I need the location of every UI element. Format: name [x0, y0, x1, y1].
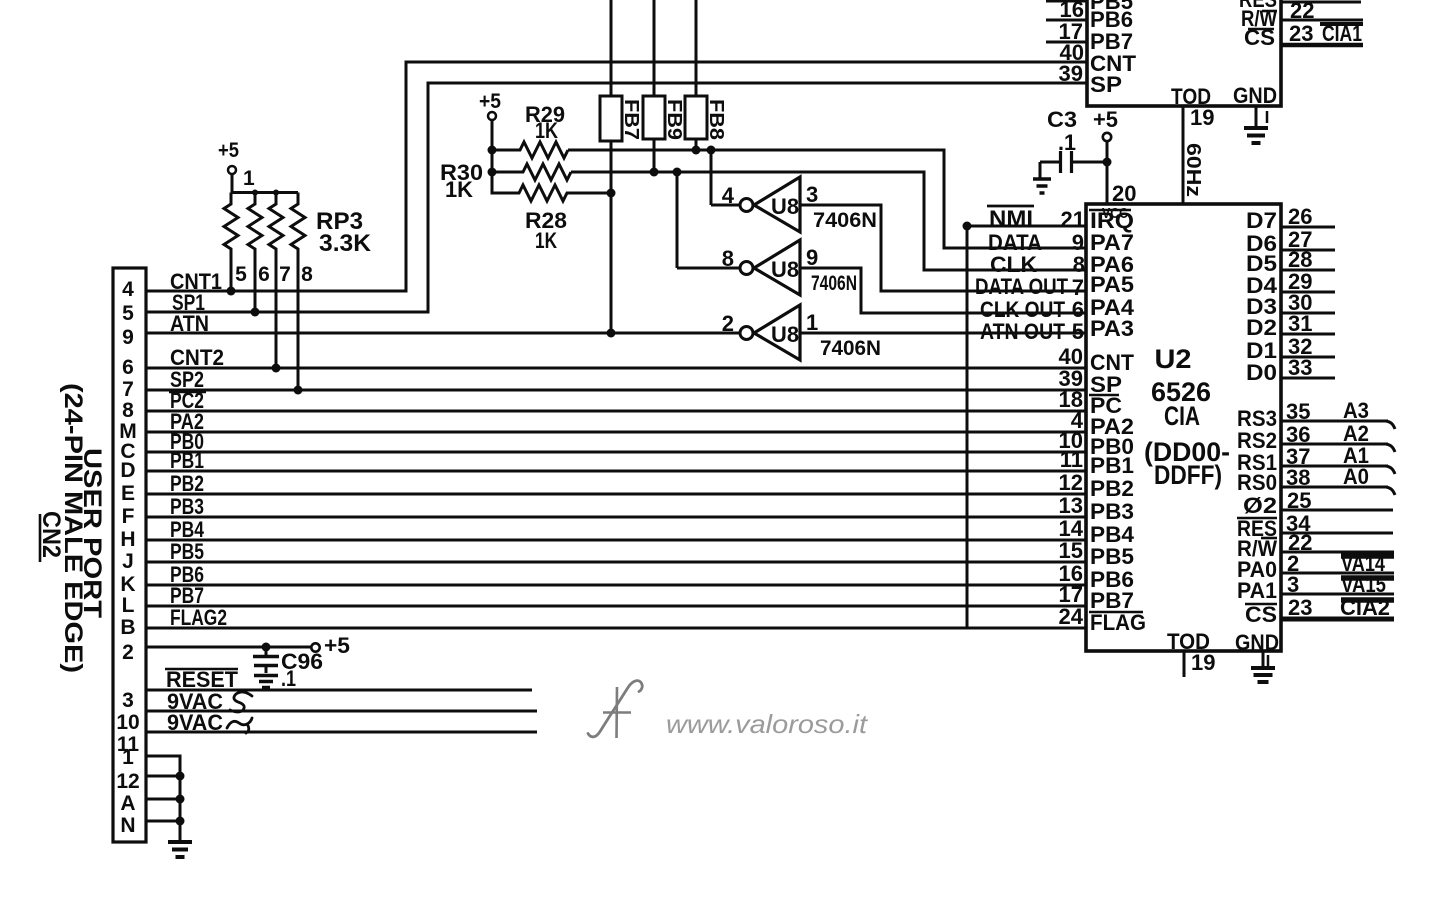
resistor network RP3 3.3K	[218, 139, 372, 390]
IC U2 6526 CIA (DD00-DDFF)	[1086, 204, 1281, 655]
junction FB9/CLK	[650, 168, 659, 177]
wire U2 D1 pin 32	[1281, 334, 1335, 359]
wire U1 pin RES	[1281, 1, 1361, 4]
junction R28/FB7	[607, 189, 616, 198]
svg-text:35: 35	[1286, 399, 1310, 424]
svg-text:U8: U8	[771, 257, 799, 282]
svg-text:5: 5	[235, 263, 247, 286]
svg-text:9VAC: 9VAC	[167, 710, 223, 735]
wire PB3 (CN2 to U2 pin 13)	[146, 493, 1087, 519]
wire PB1 (CN2 to U2 pin 11)	[146, 447, 1087, 473]
capacitor C96 .1	[253, 647, 323, 691]
junction RP3 pin 7 / CNT2	[272, 364, 281, 373]
inverter U8 7406N (pins 4 in / 3 out) serial DATA driver	[711, 150, 877, 232]
svg-text:FB7: FB7	[620, 99, 642, 140]
svg-text:+5: +5	[218, 139, 239, 162]
svg-text:8: 8	[122, 399, 134, 422]
svg-text:PB3: PB3	[1090, 499, 1134, 524]
resistor R30 1K	[440, 150, 571, 202]
junction FB7/ATN	[607, 329, 616, 338]
svg-text:13: 13	[1059, 493, 1083, 518]
svg-text:FB9: FB9	[663, 99, 685, 140]
svg-text:PB2: PB2	[1090, 476, 1134, 501]
wire NMI (U2 IRQ pin 21, tied to FLAG row)	[967, 206, 1087, 628]
junction FB8/DATA	[692, 146, 701, 155]
svg-text:PB1: PB1	[1090, 453, 1134, 478]
svg-text:23: 23	[1289, 21, 1313, 46]
svg-text:A3: A3	[1343, 398, 1369, 423]
svg-text:2: 2	[122, 641, 134, 664]
wire U2 RS1 pin 37 net A1	[1281, 443, 1395, 474]
svg-text:38: 38	[1286, 465, 1310, 490]
svg-text:9: 9	[806, 245, 818, 270]
wire PC2 (CN2 to U2 pin 18)	[146, 387, 1087, 413]
svg-text:L: L	[122, 594, 135, 617]
wire CNT2 (CN2 to U2 pin 40)	[146, 344, 1087, 370]
svg-text:PB1: PB1	[170, 448, 204, 473]
svg-text:3: 3	[1287, 572, 1299, 597]
svg-text:17: 17	[1059, 19, 1083, 44]
+5 terminal (CN2 pin 2)	[311, 633, 350, 658]
svg-text:PA5: PA5	[1090, 272, 1134, 297]
ground (U2 GND pin 1)	[1251, 651, 1275, 682]
svg-text:4: 4	[722, 183, 735, 208]
svg-text:1: 1	[122, 746, 134, 769]
junction NMI tee	[963, 222, 972, 231]
svg-text:NMI: NMI	[989, 206, 1033, 231]
svg-text:7: 7	[122, 378, 134, 401]
+5 terminal (pull-ups R29/R30)	[479, 90, 501, 150]
svg-text:5: 5	[1072, 319, 1084, 344]
wire PB4 (CN2 to U2 pin 14)	[146, 516, 1087, 542]
connector CN2 title USER PORT (24-PIN MALE EDGE) CN2	[37, 383, 106, 673]
svg-text:21: 21	[1061, 207, 1085, 232]
svg-text:K: K	[120, 573, 135, 596]
junction R29 wire / U8 pin 4 branch	[707, 146, 716, 155]
svg-text:U2: U2	[1155, 344, 1192, 374]
inverter U8 7406N (pins 8 in / 9 out) serial CLK driver	[677, 172, 857, 295]
wire U2 D5 pin 28	[1281, 247, 1335, 272]
svg-text:7: 7	[279, 263, 291, 286]
wire U2 D0 pin 33	[1281, 355, 1335, 380]
svg-text:31: 31	[1288, 311, 1312, 336]
svg-text:23: 23	[1288, 595, 1312, 620]
junction (C96 tap on pin 2 wire)	[262, 643, 271, 652]
resistor R28 1K	[492, 172, 611, 253]
wire ground bus (CN2 pins 1,12,A,N)	[146, 756, 185, 841]
wire U2 RS2 pin 36 net A2	[1281, 421, 1395, 452]
svg-text:+5: +5	[1093, 107, 1118, 132]
svg-text:19: 19	[1191, 650, 1215, 675]
svg-text:1: 1	[243, 167, 255, 190]
svg-text:8: 8	[722, 246, 734, 271]
wire +5 to CN2 pin 2	[146, 646, 311, 649]
wire serial ATN via ferrite bead FB7	[610, 0, 613, 333]
watermark valoroso.it logo	[588, 681, 642, 738]
wire PB7 (CN2 to U2 pin 17)	[146, 582, 1087, 608]
svg-text:A0: A0	[1343, 464, 1369, 489]
wire U1 pin 22 (R/W)	[1281, 0, 1363, 23]
svg-text:U8: U8	[771, 322, 799, 347]
wire U1 pin 23 (CS) net CIA1	[1281, 21, 1363, 46]
wire U2 D2 pin 31	[1281, 311, 1335, 336]
svg-text:D0: D0	[1246, 360, 1277, 385]
resistor R29 1K	[492, 102, 568, 158]
svg-text:CS: CS	[1245, 602, 1277, 627]
svg-text:D2: D2	[1246, 315, 1277, 340]
svg-text:.1: .1	[281, 666, 296, 691]
wire U2 CS pin 23 net CIA2	[1281, 595, 1394, 620]
wire U2 phi2 pin 25	[1281, 488, 1393, 513]
svg-text:25: 25	[1287, 488, 1311, 513]
wire U2 PA1 pin 3 net VA15	[1281, 572, 1394, 597]
svg-text:8: 8	[301, 263, 313, 286]
ground (C96)	[254, 674, 278, 678]
IC U1 CIA1 (partial)	[1087, 0, 1281, 109]
svg-text:8: 8	[1073, 252, 1085, 277]
ground (U1 GND pin 1)	[1244, 106, 1268, 143]
wire 9VAC (CN2 pin 10)	[146, 689, 537, 714]
svg-text:DATA OUT: DATA OUT	[975, 274, 1068, 299]
svg-text:PB5: PB5	[170, 539, 204, 564]
svg-text:60Hz: 60Hz	[1182, 143, 1204, 197]
svg-text:3.3K: 3.3K	[319, 230, 372, 257]
wire SP2 (CN2 to U2 pin 39)	[146, 366, 1087, 392]
svg-text:PA3: PA3	[1090, 316, 1134, 341]
junction R29/+5	[488, 146, 497, 155]
svg-text:33: 33	[1288, 355, 1312, 380]
svg-text:6: 6	[122, 356, 134, 379]
wire U2 R/W pin 22	[1281, 530, 1394, 555]
svg-text:2: 2	[722, 311, 734, 336]
svg-text:1: 1	[806, 310, 818, 335]
svg-text:26: 26	[1288, 204, 1312, 229]
wire U2 D4 pin 29	[1281, 269, 1335, 294]
junction R30/+5	[488, 168, 497, 177]
svg-text:C3: C3	[1047, 107, 1077, 132]
svg-text:+5: +5	[479, 90, 501, 113]
svg-text:DDFF): DDFF)	[1154, 460, 1222, 490]
wire U1 pin 17 (PB7)	[1046, 19, 1087, 44]
svg-text:www.valoroso.it: www.valoroso.it	[666, 709, 869, 739]
wire PB2 (CN2 to U2 pin 12)	[146, 470, 1087, 496]
svg-text:FLAG2: FLAG2	[170, 605, 227, 630]
svg-text:24: 24	[1059, 604, 1084, 629]
svg-text:3: 3	[806, 182, 818, 207]
wire serial DATA (R29 to U2 PA7 pin 9)	[568, 150, 1087, 255]
wire U1 TOD pin 19 to U2 (60Hz)	[1182, 105, 1214, 204]
wire PB6 (CN2 to U2 pin 16)	[146, 561, 1087, 587]
svg-text:D7: D7	[1246, 208, 1277, 233]
svg-text:11: 11	[1060, 447, 1083, 472]
svg-text:19: 19	[1190, 105, 1214, 130]
wire PB5 (CN2 to U2 pin 15)	[146, 538, 1087, 564]
ground (C3)	[1033, 177, 1051, 181]
svg-text:PB5: PB5	[1090, 544, 1134, 569]
wire SP1 (CN2 pin 5 up to U1 pin 39 SP)	[146, 61, 1087, 315]
capacitor C3 .1	[1040, 107, 1107, 178]
wire ATN OUT (U2 PA3 pin 5 to U8 pin 1)	[800, 319, 1087, 344]
svg-text:3: 3	[122, 689, 134, 712]
wire U2 RS0 pin 38 net A0	[1281, 464, 1395, 495]
wire CNT1 (CN2 pin 4 up to U1 pin 40 CNT)	[146, 40, 1087, 294]
svg-text:U8: U8	[771, 194, 799, 219]
junction C3/+5	[1103, 158, 1112, 167]
svg-text:12: 12	[1059, 470, 1083, 495]
ferrite bead FB9	[643, 96, 685, 140]
svg-text:GND: GND	[1235, 630, 1279, 655]
wire PA2 (CN2 to U2 pin 4)	[146, 408, 1087, 434]
svg-text:1K: 1K	[445, 177, 473, 202]
wire U2 TOD pin 19	[1184, 650, 1215, 677]
connector CN2 user port (24-pin male edge) body	[113, 268, 146, 842]
svg-text:J: J	[122, 550, 134, 573]
wire U2 RES pin 34	[1281, 511, 1393, 536]
wire CLK OUT (U2 PA4 pin 6 to U8 pin 9)	[800, 268, 1087, 322]
ferrite bead FB7	[600, 96, 642, 141]
wire U2 D7 pin 26	[1281, 204, 1335, 229]
wire U2 D3 pin 30	[1281, 290, 1335, 315]
junction RP3 pin 5 / CNT1	[227, 287, 236, 296]
svg-text:7406N: 7406N	[820, 337, 881, 360]
svg-text:N: N	[120, 814, 135, 837]
svg-text:6: 6	[258, 263, 270, 286]
svg-text:A: A	[120, 792, 135, 815]
junction RP3 pin 8 / SP2	[294, 386, 303, 395]
svg-text:SP: SP	[1090, 72, 1122, 97]
svg-text:FLAG: FLAG	[1090, 610, 1146, 635]
svg-text:H: H	[120, 528, 135, 551]
wire serial CLK (R30 to U2 PA6 pin 8)	[571, 172, 1087, 277]
wire 9VAC (CN2 pin 11)	[146, 710, 537, 735]
svg-text:1K: 1K	[535, 228, 557, 253]
wire serial DATA via ferrite bead FB8	[695, 0, 698, 150]
svg-text:9: 9	[122, 326, 134, 349]
svg-text:CIA: CIA	[1164, 401, 1200, 431]
svg-text:12: 12	[116, 770, 139, 793]
svg-text:4: 4	[122, 278, 134, 301]
svg-text:E: E	[121, 482, 135, 505]
junction RP3 pin 6 / SP1	[251, 308, 260, 317]
svg-text:15: 15	[1059, 538, 1083, 563]
wire FLAG2 (CN2 to U2 pin 24)	[146, 604, 1087, 630]
junction R30 wire / U8 pin 8 branch	[673, 168, 682, 177]
svg-text:7406N: 7406N	[813, 209, 877, 232]
svg-text:F: F	[122, 505, 135, 528]
svg-text:22: 22	[1290, 0, 1314, 23]
wire RESET (CN2 pin 3)	[146, 667, 532, 692]
+5 terminal (U2 VCC pin 20)	[1093, 107, 1136, 206]
svg-text:39: 39	[1059, 61, 1083, 86]
wire DATA OUT (U2 PA5 pin 7 to U8 pin 3)	[800, 205, 1087, 300]
svg-text:1K: 1K	[535, 118, 558, 143]
svg-text:PA1: PA1	[1237, 578, 1277, 603]
connector CN2 pin numbers	[116, 278, 139, 837]
wire U1 pin 15 (PB5), clipped at top	[1046, 0, 1087, 3]
ground (CN2 shield)	[168, 840, 192, 844]
wire ATN (CN2 pin 9 to inverter U8c output)	[146, 311, 740, 336]
svg-text:Ø2: Ø2	[1243, 493, 1277, 518]
wire U1 pin 16 (PB6)	[1046, 0, 1087, 22]
wire U2 D6 pin 27	[1281, 227, 1335, 252]
wire serial CLK via ferrite bead FB9	[653, 0, 656, 172]
svg-text:ATN: ATN	[170, 311, 209, 336]
svg-text:+5: +5	[324, 633, 350, 658]
svg-text:GND: GND	[1233, 83, 1277, 108]
svg-text:5: 5	[122, 302, 134, 325]
svg-text:ATN OUT: ATN OUT	[980, 319, 1065, 344]
inverter U8 7406N (pins 2 in / 1 out) serial ATN driver	[722, 305, 881, 360]
svg-text:D: D	[120, 459, 135, 482]
svg-text:FB8: FB8	[705, 99, 727, 140]
svg-text:PB2: PB2	[170, 471, 204, 496]
svg-text:10: 10	[116, 711, 139, 734]
svg-text:RS0: RS0	[1237, 470, 1277, 495]
svg-text:7406N: 7406N	[811, 272, 857, 295]
svg-text:PB3: PB3	[170, 494, 204, 519]
ferrite bead FB8	[685, 96, 727, 140]
wire PB0 (CN2 to U2 pin 10)	[146, 428, 1087, 454]
wire U2 PA0 pin 2 net VA14	[1281, 551, 1394, 576]
wire U2 RS3 pin 35 net A3	[1281, 398, 1395, 429]
svg-text:B: B	[120, 616, 135, 639]
